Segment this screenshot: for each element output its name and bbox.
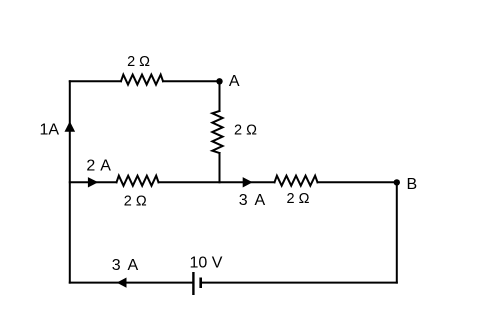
wire right vertical branch xyxy=(396,182,398,282)
svg-text:1A: 1A xyxy=(40,122,60,139)
node B junction dot xyxy=(394,179,400,185)
resistor R1 2ohm (top branch) xyxy=(121,75,163,85)
svg-text:2 Ω: 2 Ω xyxy=(287,191,310,207)
battery V1 short plate (-) xyxy=(199,278,202,289)
current arrow 3A (left) on bottom branch xyxy=(117,278,127,288)
svg-text:3 A: 3 A xyxy=(112,257,139,274)
wire bottom branch right segment xyxy=(201,282,397,284)
wire middle branch right segment to node B xyxy=(318,181,397,183)
battery V1 long plate (+) xyxy=(192,272,194,295)
svg-text:2 Ω: 2 Ω xyxy=(127,54,150,70)
svg-text:3 A: 3 A xyxy=(239,192,266,209)
wire top branch right segment to node A xyxy=(163,80,220,82)
wire top branch left segment xyxy=(70,80,121,82)
svg-text:B: B xyxy=(407,176,418,193)
wire left vertical branch xyxy=(69,81,71,282)
wire middle branch left segment xyxy=(70,181,117,183)
wire middle branch center segment xyxy=(159,181,275,183)
wire R2 down to middle junction xyxy=(219,153,221,182)
current arrow 2A (right) on middle branch xyxy=(88,177,98,187)
svg-text:2 A: 2 A xyxy=(86,158,111,175)
wire bottom branch left segment xyxy=(70,282,194,284)
resistor R4 2ohm (middle-right) xyxy=(275,176,318,186)
current arrow 1A (up) on left branch xyxy=(65,121,76,132)
svg-text:A: A xyxy=(229,73,240,90)
resistor R3 2ohm (middle-left) xyxy=(117,176,159,186)
current arrow 3A (right) on middle branch after junction xyxy=(243,177,253,187)
resistor R2 2ohm (vertical) xyxy=(212,111,222,153)
svg-text:2 Ω: 2 Ω xyxy=(234,122,257,138)
wire node A down to R2 xyxy=(219,81,221,111)
svg-text:10 V: 10 V xyxy=(190,255,223,272)
node A junction dot xyxy=(216,78,222,84)
svg-text:2 Ω: 2 Ω xyxy=(124,194,147,210)
